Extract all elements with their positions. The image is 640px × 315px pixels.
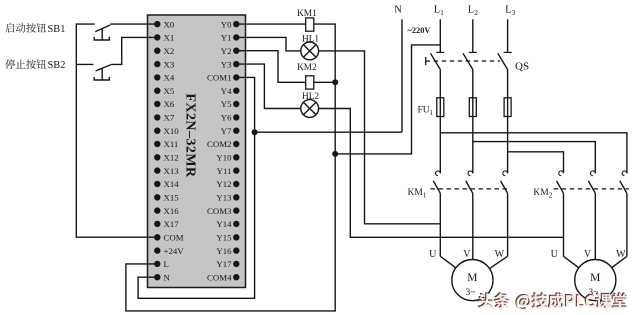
wire X0 to SB1 [110, 23, 157, 25]
N supply line [401, 19, 403, 132]
PLC pins and pin labels [154, 21, 160, 27]
svg-text:X15: X15 [164, 193, 180, 203]
svg-text:Y13: Y13 [216, 193, 232, 203]
svg-text:COM3: COM3 [207, 206, 232, 216]
svg-text:COM4: COM4 [207, 272, 232, 282]
wire HL1 to phase U1 [319, 51, 441, 224]
label start button SB1 [5, 23, 14, 33]
disconnect switch QS [436, 51, 444, 53]
svg-text:X2: X2 [164, 46, 175, 56]
svg-text:M: M [590, 272, 600, 284]
svg-text:~220V: ~220V [408, 26, 431, 35]
svg-text:X17: X17 [164, 219, 180, 229]
contactor KM1 main contacts [436, 171, 441, 176]
wire L bus to L1 tap [335, 45, 440, 154]
svg-text:Y14: Y14 [216, 219, 232, 229]
svg-text:W: W [616, 249, 626, 260]
svg-text:Y15: Y15 [216, 233, 232, 243]
svg-text:Y10: Y10 [216, 153, 232, 163]
wire L1 drop [439, 19, 441, 52]
L bus upper segment [334, 82, 336, 154]
svg-text:L: L [164, 259, 169, 269]
svg-text:Y16: Y16 [216, 246, 232, 256]
svg-text:COM2: COM2 [207, 139, 231, 149]
contactor coil KM2 [306, 76, 314, 89]
svg-text:X1: X1 [164, 33, 175, 43]
svg-text:Y0: Y0 [221, 19, 232, 29]
wire tap phase2 to KM2-c2 [473, 142, 596, 174]
svg-text:KM1: KM1 [297, 9, 317, 19]
wire Y2 to KM2 coil [236, 51, 305, 83]
svg-text:X3: X3 [164, 59, 175, 69]
wire X1 to SB2 [112, 37, 158, 64]
contactor coil KM1 [306, 18, 314, 31]
svg-text:HL2: HL2 [302, 92, 319, 102]
pushbutton SB1 (NO) [95, 25, 110, 32]
svg-text:N: N [394, 5, 402, 16]
wire L pin loop [126, 154, 335, 311]
wire Y3 to HL2 [236, 64, 300, 108]
wire KM1 coil to L bus [314, 24, 335, 82]
wire KM2 coil to L bus [314, 81, 335, 83]
KM1 linkage dashed [431, 188, 510, 190]
svg-text:X7: X7 [164, 113, 175, 123]
svg-text:X12: X12 [164, 153, 179, 163]
svg-text:X14: X14 [164, 179, 180, 189]
wire HL2 to phase U2 [319, 109, 564, 238]
wire L3 drop [507, 19, 509, 52]
svg-text:W: W [495, 249, 505, 260]
svg-text:QS: QS [515, 61, 529, 73]
wire COM1 down to N pin [138, 77, 255, 298]
wire Y1 to HL1 [236, 37, 300, 51]
svg-text:COM: COM [164, 233, 184, 243]
junction COM1-N [252, 129, 258, 135]
svg-text:X6: X6 [164, 99, 175, 109]
KM2 linkage dashed [554, 188, 629, 190]
wire L2 drop [472, 19, 474, 52]
svg-text:+24V: +24V [164, 246, 185, 256]
svg-text:3~: 3~ [465, 288, 475, 298]
wire tap phase3 to KM2-c1 [508, 152, 564, 174]
svg-text:U: U [551, 249, 559, 260]
svg-text:FX2N–32MR: FX2N–32MR [183, 93, 198, 178]
wire tap phase1 to KM2-c3 [440, 133, 627, 174]
motor M2 [575, 260, 616, 301]
svg-text:SB2: SB2 [48, 60, 66, 71]
svg-text:Y2: Y2 [221, 46, 232, 56]
watermark toutiao [477, 292, 627, 310]
svg-text:Y7: Y7 [221, 126, 232, 136]
wire button common rail to COM [76, 24, 157, 237]
svg-text:V: V [584, 249, 592, 260]
svg-text:KM2: KM2 [297, 63, 317, 73]
QS linkage dashed [426, 60, 500, 62]
svg-text:SB1: SB1 [48, 24, 66, 35]
wires KM1 to motor M1 [439, 193, 441, 256]
lamp HL1 [301, 42, 319, 60]
svg-text:Y1: Y1 [221, 33, 232, 43]
svg-text:N: N [164, 272, 171, 282]
svg-text:X5: X5 [164, 86, 175, 96]
svg-text:V: V [463, 249, 471, 260]
svg-text:X16: X16 [164, 206, 180, 216]
junction KM2-bus [332, 79, 338, 85]
svg-text:Y17: Y17 [216, 259, 232, 269]
wires KM2 to motor M2 [563, 193, 565, 256]
wire N line to COM1 net [255, 131, 402, 133]
svg-text:HL1: HL1 [302, 34, 319, 44]
wire SB2 left [76, 63, 93, 65]
svg-text:Y3: Y3 [221, 59, 232, 69]
svg-text:COM1: COM1 [207, 73, 231, 83]
contactor KM2 main contacts [559, 171, 564, 176]
svg-text:X0: X0 [164, 19, 175, 29]
svg-text:Y6: Y6 [221, 113, 232, 123]
svg-text:Y11: Y11 [217, 166, 232, 176]
junction L-bus tap [332, 151, 338, 157]
pushbutton SB2 (NC) [96, 64, 112, 71]
fuses FU1 [437, 98, 444, 117]
svg-text:M: M [467, 272, 477, 284]
PLC FX2N-32MR body [148, 15, 246, 288]
svg-text:U: U [429, 249, 437, 260]
svg-text:Y4: Y4 [221, 86, 232, 96]
svg-text:X10: X10 [164, 126, 180, 136]
wire phase drops to KM1 [439, 117, 441, 174]
motor M1 [452, 260, 493, 301]
lamp HL2 [301, 100, 319, 118]
svg-text:Y5: Y5 [221, 99, 232, 109]
wire Y0 to KM1 coil [236, 23, 305, 25]
svg-text:X13: X13 [164, 166, 180, 176]
svg-text:X4: X4 [164, 73, 175, 83]
svg-text:Y12: Y12 [216, 179, 231, 189]
svg-text:X11: X11 [164, 139, 179, 149]
label stop button SB2 [5, 59, 15, 69]
